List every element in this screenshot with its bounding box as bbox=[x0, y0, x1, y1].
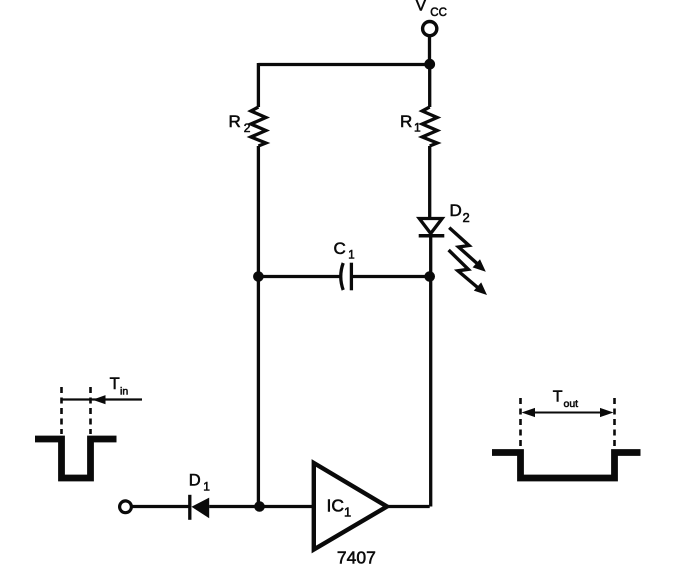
svg-text:D: D bbox=[450, 201, 462, 220]
svg-text:T: T bbox=[110, 375, 120, 393]
svg-text:1: 1 bbox=[203, 480, 210, 494]
svg-text:1: 1 bbox=[348, 250, 354, 262]
svg-text:7407: 7407 bbox=[337, 547, 376, 567]
svg-text:R: R bbox=[229, 112, 241, 131]
svg-text:R: R bbox=[400, 112, 412, 131]
svg-text:D: D bbox=[189, 472, 201, 490]
svg-text:V: V bbox=[416, 0, 427, 15]
svg-text:in: in bbox=[120, 386, 128, 398]
svg-text:2: 2 bbox=[463, 210, 470, 225]
svg-text:1: 1 bbox=[414, 121, 421, 135]
svg-text:CC: CC bbox=[430, 7, 447, 19]
svg-text:C: C bbox=[334, 239, 346, 258]
svg-text:1: 1 bbox=[344, 505, 351, 520]
svg-text:IC: IC bbox=[327, 496, 345, 516]
svg-text:2: 2 bbox=[244, 121, 251, 135]
svg-text:out: out bbox=[564, 398, 579, 410]
svg-text:T: T bbox=[553, 388, 563, 405]
